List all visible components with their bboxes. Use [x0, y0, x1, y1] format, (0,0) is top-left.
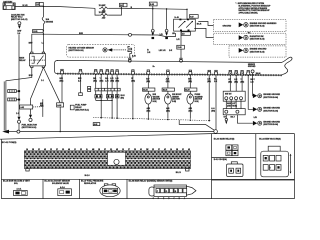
svg-text:RELAY: RELAY [19, 59, 26, 62]
inline connector B [29, 118, 32, 121]
label sensor ground [248, 64, 261, 75]
wire label pair x62 [60, 78, 64, 83]
inline connector [17, 130, 20, 133]
section divider [0, 134, 295, 140]
frame right [294, 134, 296, 199]
svg-text:(NEXT NO 2-6L.R): (NEXT NO 2-6L.R) [11, 19, 28, 21]
svg-text:SOLENOID VALVE: SOLENOID VALVE [52, 182, 70, 185]
inline connector [129, 33, 132, 36]
box EC-05 header [3, 180, 31, 185]
connector arrow down [225, 121, 227, 124]
harness bus [55, 57, 292, 75]
terminal unit B [106, 95, 113, 98]
wire B/W branch to relay [32, 34, 44, 52]
connector box F-07 overlay [190, 15, 199, 19]
wire label pair x190 [188, 79, 192, 84]
connector box E-01 [120, 3, 128, 8]
wire injector rail [9, 131, 17, 133]
junction [5, 131, 6, 132]
junction [43, 30, 44, 31]
wire drop x101 [100, 74, 102, 118]
main relay K1 [19, 52, 45, 67]
svg-text:B/W: B/W [29, 75, 33, 77]
connector box A-02 mid [93, 123, 100, 126]
wire to rail [18, 123, 20, 130]
inline connector [18, 120, 21, 123]
bus terminal 1 [60, 69, 63, 73]
svg-text:(B6): (B6) [115, 81, 119, 83]
wire battery feed [15, 6, 95, 8]
svg-text:(B6): (B6) [100, 81, 104, 83]
svg-text:B-16: B-16 [132, 55, 136, 57]
bus terminal 14 [229, 70, 232, 75]
svg-text:RADIATOR SW: RADIATOR SW [250, 35, 264, 38]
wire label pair x117 [115, 78, 119, 83]
ground row 2 [214, 33, 287, 44]
box EC-06 header [44, 180, 70, 185]
EC-08 pin letters [153, 197, 186, 200]
wire label B 2-R [147, 49, 166, 53]
bus terminal 13 [214, 70, 217, 74]
wire B/W long run [43, 33, 175, 37]
svg-text:(SECTION: (SECTION [172, 99, 180, 101]
reference boxes left of strip [88, 86, 91, 91]
EC-02 side arrows [290, 154, 292, 174]
svg-text:EC-01 PCM(S): EC-01 PCM(S) [2, 142, 17, 144]
wire battery to injector rail [18, 34, 20, 116]
junction [111, 117, 113, 119]
connector arrow [152, 33, 155, 36]
svg-text:(SECTION): (SECTION) [227, 106, 237, 108]
svg-text:B 2-R: B 2-R [23, 5, 29, 7]
wire stub to ground row1 [198, 22, 213, 26]
svg-text:B/W: B/W [29, 43, 33, 45]
terminal unit A [95, 95, 102, 98]
terminal into harness [180, 58, 183, 62]
svg-text:APPLICABLE MODEL: APPLICABLE MODEL [239, 12, 259, 15]
svg-text:ENGINE: ENGINE [46, 22, 54, 24]
cooling fan relay note [11, 13, 28, 21]
wire drop x95 [95, 74, 97, 100]
connector box A-02b [57, 103, 64, 107]
terminal T1 [18, 22, 21, 25]
EC-03 relay drawing [226, 145, 238, 156]
svg-text:(B6): (B6) [131, 81, 135, 83]
label fuel pump relay [197, 24, 202, 26]
svg-text:KNT IST: KNT IST [225, 94, 233, 96]
svg-text:(SECTION: (SECTION [153, 99, 161, 101]
sensor unit box 2 [223, 109, 245, 115]
svg-text:ENGINE GROUND HARNESS: ENGINE GROUND HARNESS [250, 22, 277, 25]
reference strip upper [8, 90, 20, 93]
wire unit2 to rail [167, 104, 169, 118]
wire label pair x242 [240, 79, 244, 84]
ground row mid 3 [253, 121, 281, 126]
svg-text:(SECTION B-04): (SECTION B-04) [250, 25, 265, 28]
wire label pair x80 [78, 78, 82, 83]
wire stub vertical [42, 99, 44, 117]
junction [101, 100, 102, 101]
junction [190, 119, 192, 121]
junction [148, 118, 150, 120]
connector arrow injector [18, 117, 21, 121]
wire drop x209 [208, 75, 210, 121]
label fuel injector [22, 125, 38, 130]
wire label pair x112 [110, 78, 114, 83]
svg-text:EC-02 E5M VACUUM(S): EC-02 E5M VACUUM(S) [259, 137, 281, 140]
svg-text:B6-06: B6-06 [256, 73, 261, 75]
ground mark [152, 37, 155, 39]
svg-text:E-01 ODO(EA): E-01 ODO(EA) [214, 158, 227, 161]
bus terminal 9 [147, 70, 150, 75]
wire label pair x236 [234, 79, 238, 84]
sensor unit box 1 [223, 91, 245, 101]
junction [43, 34, 44, 35]
svg-text:(SECTION B-1G): (SECTION B-1G) [69, 50, 84, 52]
wire drop x248 [248, 75, 253, 109]
fuse F2 15A [99, 11, 109, 19]
fuse F1 15A [99, 4, 109, 12]
wires box1 to box2 [226, 100, 241, 109]
bus terminal 16 [241, 71, 244, 76]
svg-text:L/R 2-R: L/R 2-R [159, 50, 166, 52]
junction [116, 117, 118, 119]
wire relay out right diagonal A [43, 68, 60, 103]
wire drop x62 [61, 74, 63, 103]
svg-text:(B6): (B6) [93, 81, 97, 83]
svg-text:PURGE: PURGE [195, 94, 201, 96]
svg-text:(SECTION B-04): (SECTION B-04) [250, 38, 265, 41]
svg-text:(B6): (B6) [40, 105, 44, 107]
svg-text:EGR BOOST: EGR BOOST [172, 94, 181, 96]
connector arrow B [29, 115, 32, 118]
svg-text:SOLENOID: SOLENOID [195, 96, 204, 98]
svg-text:EC-08 MAIN RELAY (DDM/EA) SEN: EC-08 MAIN RELAY (DDM/EA) SENSOR UNIT(S) [129, 180, 173, 183]
PCM connector strip [24, 151, 190, 171]
EC-02 connector drawing [261, 146, 289, 177]
EC-07 connector drawing [100, 184, 120, 197]
ground row 3 [229, 46, 286, 57]
connector arrow left [2, 130, 9, 134]
svg-text:EC-03 MAIN RELAY(S): EC-03 MAIN RELAY(S) [214, 137, 235, 140]
sensor unit EGR boost [162, 88, 181, 112]
svg-text:(SECTION: (SECTION [195, 99, 203, 101]
junction [208, 120, 210, 122]
dashed ground rail [93, 118, 211, 121]
svg-text:(SECTION B-04): (SECTION B-04) [263, 96, 278, 99]
wire drop x107 [106, 74, 108, 100]
wire relay output down [180, 31, 182, 45]
wire T down [152, 6, 154, 29]
bus terminal 7 [116, 70, 119, 75]
frame bottom [1, 198, 294, 200]
fuse F3 30A ENGINE [42, 6, 54, 30]
frame left [0, 139, 2, 198]
connector arrow [165, 33, 168, 36]
wire branch 2 [166, 8, 168, 29]
wire ground branch [3, 81, 5, 130]
svg-text:A-02: A-02 [20, 106, 24, 109]
wire injector rail main [20, 131, 214, 133]
wire label pair x230 [228, 79, 232, 84]
svg-text:REGULATOR: REGULATOR [84, 182, 97, 185]
wire fuse split [95, 8, 99, 15]
wire fuse merge [109, 7, 122, 9]
EC-05 valve drawing [14, 188, 28, 196]
junction [111, 100, 112, 101]
connector arrow down [18, 25, 21, 29]
wire label pair x252 [250, 79, 255, 84]
junction [43, 6, 44, 7]
reference box x71 [70, 105, 74, 110]
connector box T top [149, 2, 157, 6]
wire drop x168 [167, 75, 169, 94]
svg-text:B1-07: B1-07 [185, 90, 189, 92]
sensor unit EGR vacuum [143, 88, 161, 112]
divider v3 [126, 179, 128, 198]
svg-text:A-02: A-02 [57, 104, 61, 107]
wire drop x133 [132, 74, 134, 118]
wire fuse to relay coil [42, 33, 44, 52]
sensor unit purge solenoid [185, 88, 204, 112]
wire drop x190 [189, 75, 191, 94]
divider h mid right [212, 157, 256, 159]
bus terminal 12 [208, 70, 211, 74]
svg-text:HEATED OXYGEN SENSOR: HEATED OXYGEN SENSOR [69, 46, 95, 49]
bus terminal 2 [79, 70, 82, 75]
pin labels above PCM [26, 148, 191, 151]
junction [152, 8, 153, 9]
divider v5 [255, 134, 257, 180]
svg-text:B-18): B-18) [153, 101, 157, 103]
junction [186, 9, 187, 10]
wire drop x112 [111, 74, 113, 118]
wire unit3 to rail [189, 104, 191, 119]
ground row mid 1 [253, 94, 281, 99]
connector box E-01 lower [33, 30, 44, 34]
EC-08 connector drawing [149, 185, 196, 196]
connector box X-05 [177, 45, 185, 49]
inline connector [214, 130, 218, 134]
terminal into harness [128, 58, 131, 62]
bus terminal 4 [100, 70, 103, 75]
note text block [236, 3, 272, 15]
svg-text:(SECTION B-16): (SECTION B-16) [22, 127, 37, 129]
wire drop x148 [147, 74, 149, 94]
label B1 pair [121, 95, 126, 99]
bus terminal 11 [189, 70, 192, 75]
bus terminal 6 [111, 70, 114, 75]
wire label pair x107 [105, 78, 109, 83]
svg-text:(SECTION B-04): (SECTION B-04) [263, 109, 278, 112]
bus terminal 8 [131, 70, 134, 74]
label under box1 [227, 102, 237, 108]
svg-text:B6-Y: B6-Y [231, 117, 236, 119]
wire label pair x148 [146, 78, 150, 83]
wire box2 left down [225, 115, 227, 119]
wire box2 right to ground row [237, 115, 253, 123]
label A.A x213 [211, 107, 215, 112]
reference strip lower [8, 98, 20, 101]
junction [166, 8, 167, 9]
wire feed relay [186, 9, 188, 19]
wire label L/R 2-R [169, 50, 173, 52]
svg-text:GROUND: GROUND [223, 25, 232, 27]
connector box under relay [181, 32, 190, 36]
terminal [151, 29, 154, 32]
circuit opening relay K2 [174, 17, 196, 31]
terminal [225, 118, 227, 120]
wire label pair x133 [131, 78, 135, 83]
terminal [165, 29, 168, 32]
bus terminal 15 [235, 71, 238, 76]
label under box2 [224, 117, 236, 119]
wire rail branch [179, 120, 205, 124]
label A/B [40, 102, 44, 107]
wire bridge [96, 99, 112, 101]
box EC-07 header [81, 181, 104, 185]
wire label pair x168 [166, 77, 170, 83]
wire relay out diagonal B [31, 68, 44, 115]
bus terminal 17 [247, 71, 250, 76]
divider h right [212, 179, 295, 181]
svg-text:(B6): (B6) [211, 111, 215, 113]
wire diagonal to junction [206, 124, 215, 130]
svg-text:(SECTION B-1): (SECTION B-1) [75, 109, 89, 111]
mid connector strip [95, 88, 120, 91]
wire drop x236 [235, 75, 237, 91]
wire drop x242 [241, 75, 243, 91]
svg-text:E-02: E-02 [150, 4, 154, 6]
svg-text:SENSOR: SENSOR [172, 96, 179, 98]
wire label pair x209 [207, 78, 211, 84]
svg-text:B-18): B-18) [195, 101, 199, 103]
svg-text:B6-R: B6-R [197, 24, 202, 26]
wire injector feed down [59, 107, 61, 132]
terminal unit C [115, 95, 119, 98]
wire unit1 to rail [147, 104, 149, 118]
ground row mid 2 [253, 107, 281, 112]
heated oxygen sensor box [67, 44, 136, 57]
divider v4 [211, 134, 213, 199]
connector box A-02 [20, 105, 44, 109]
divider v1 [42, 179, 44, 198]
junction [167, 119, 169, 121]
bus terminal 10 [166, 70, 169, 75]
wire drop x252 sensor ground [252, 73, 254, 96]
svg-text:(B6): (B6) [60, 81, 64, 83]
bus terminal 3 [94, 70, 97, 75]
battery B1 [3, 0, 15, 9]
svg-text:B+: B+ [153, 66, 155, 68]
wire label pair x101 [100, 78, 104, 83]
svg-text:F-07: F-07 [190, 16, 193, 18]
svg-text:(B6): (B6) [121, 97, 125, 99]
connector box above battery wire [36, 2, 44, 6]
svg-text:(SECTION B-04): (SECTION B-04) [263, 123, 278, 126]
E-01 connector drawing [227, 162, 243, 177]
svg-text:B-18): B-18) [172, 101, 176, 103]
EC-06 valve drawing [58, 186, 72, 195]
wire drop x117 [116, 74, 118, 118]
svg-text:(B6): (B6) [240, 81, 244, 83]
wire label B/W 2-6 [17, 30, 21, 34]
frame band divider [1, 178, 294, 180]
wire label pair x216 [214, 79, 218, 84]
junction [121, 8, 122, 9]
bus terminal 5 [106, 70, 109, 75]
wire relay out left [6, 68, 32, 132]
svg-text:(SECTION B-04): (SECTION B-04) [250, 50, 265, 53]
wire to relays [121, 8, 187, 9]
svg-text:GROUND: GROUND [248, 66, 256, 68]
ground mark 2 [165, 37, 168, 39]
wire drop x80 [80, 74, 82, 93]
wire label pair x95 [93, 78, 97, 83]
svg-text:B1-05: B1-05 [163, 90, 167, 92]
wire drop x216 [215, 75, 217, 130]
wire stub to ground row2 [194, 28, 213, 37]
svg-text:M-1.0: M-1.0 [85, 175, 90, 177]
wire HO2S to harness [129, 53, 131, 58]
svg-text:B/L B: B/L B [176, 172, 182, 174]
ground row 1 [214, 20, 287, 32]
junction [60, 131, 61, 132]
wire into harness [180, 49, 182, 58]
junction [100, 117, 102, 119]
svg-text:B/W: B/W [79, 33, 83, 35]
junction [132, 118, 134, 120]
label fuel pump relay section [75, 105, 89, 112]
divider v2 [78, 179, 80, 198]
wire drop x230 [229, 75, 231, 91]
